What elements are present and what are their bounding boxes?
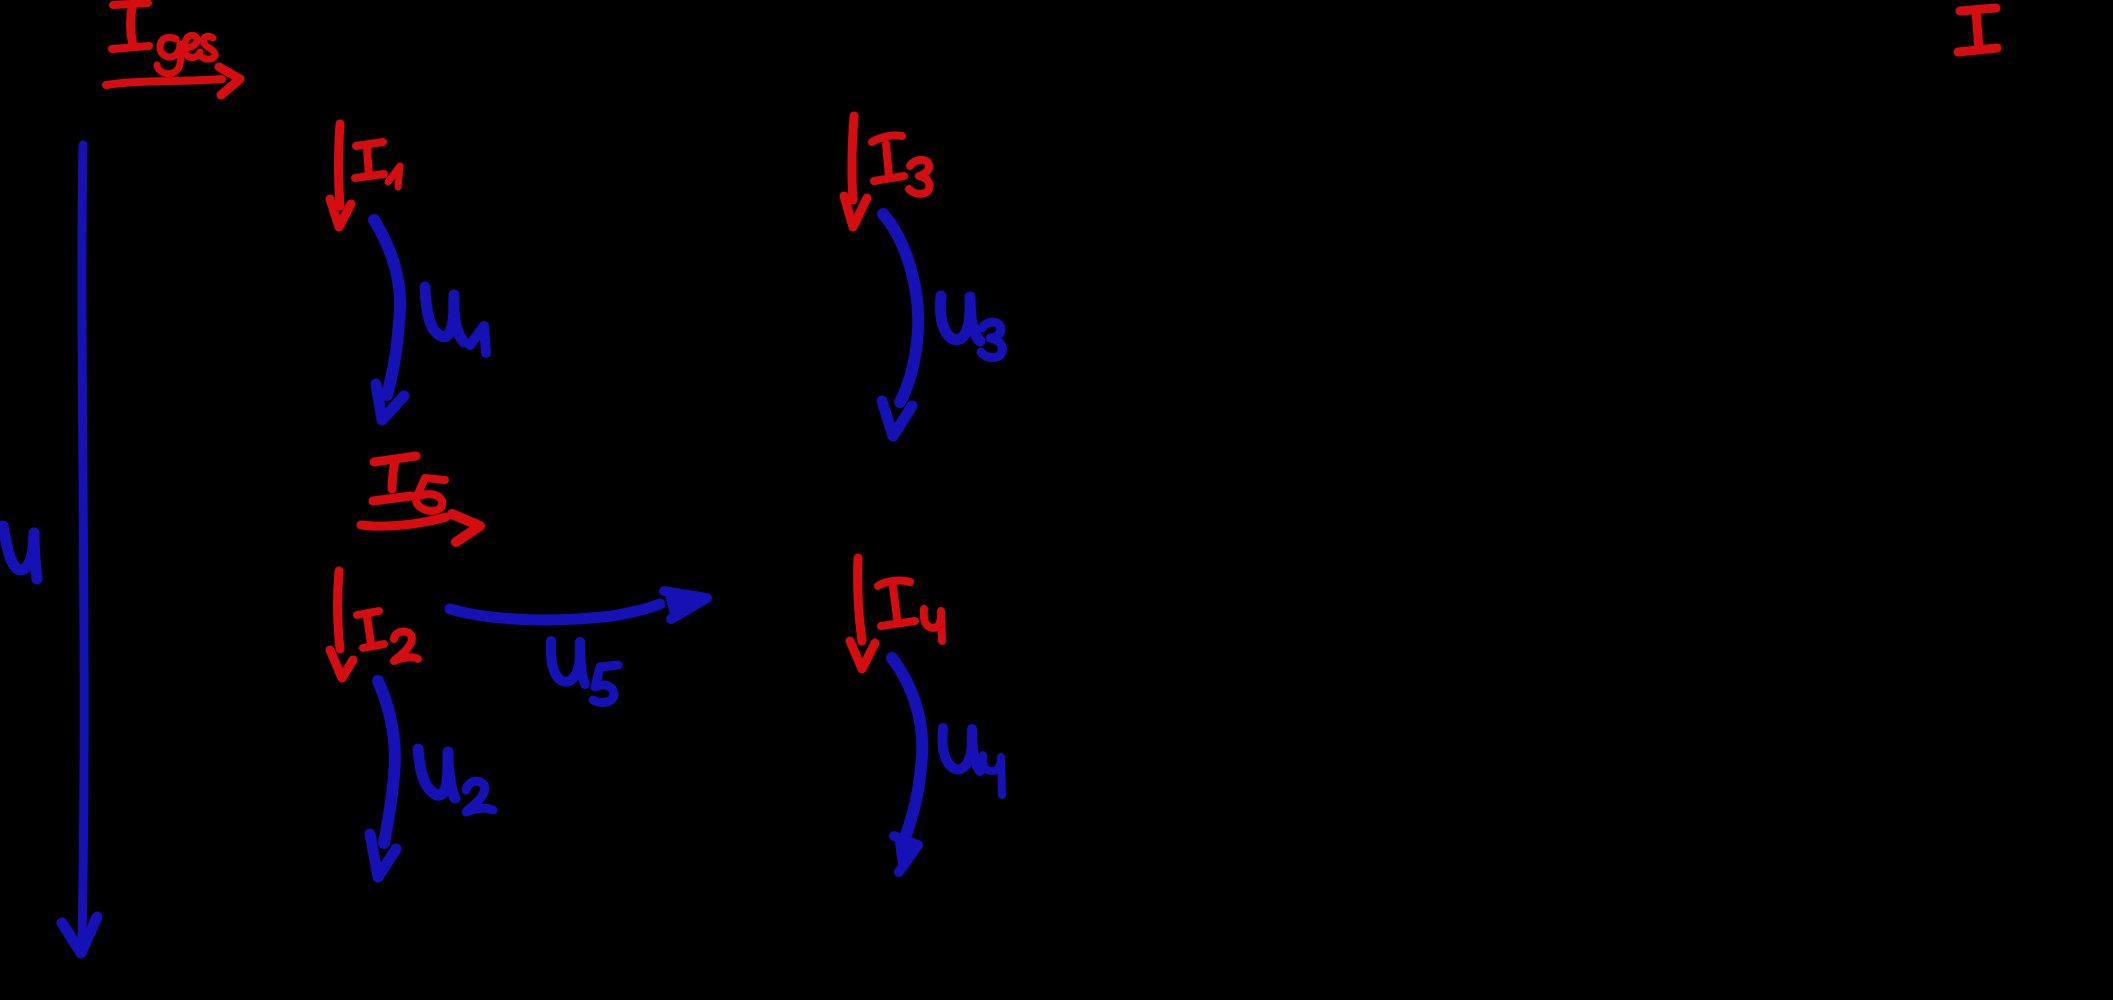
label I5 [373, 456, 445, 511]
arrow U3 curved [883, 214, 918, 402]
wire I_ges arrow shaft [106, 79, 222, 85]
I1 arrowhead [330, 199, 351, 227]
label U2 [418, 749, 493, 812]
U3 arrowhead [882, 401, 912, 436]
label U source voltage [3, 526, 37, 579]
arrow U2 curved [378, 681, 395, 843]
I3 arrowhead [844, 196, 867, 227]
U5 arrowhead [664, 591, 707, 619]
I5 arrowhead [452, 514, 480, 542]
I2 arrowhead [330, 650, 353, 678]
label I_ges : letter I [112, 3, 149, 49]
U4 arrowhead [894, 836, 918, 872]
label u5 [551, 641, 618, 702]
arrow U1 curved [374, 220, 400, 395]
I4 arrowhead [850, 641, 875, 669]
label I3 [872, 135, 929, 194]
U arrowhead [62, 917, 97, 953]
arrow U4 curved [892, 658, 922, 835]
arrow I2 [338, 571, 340, 649]
wire U arrow shaft (left tall arrow) [82, 145, 84, 937]
wire I5 arrow shaft [361, 517, 446, 526]
label I_ges : subscript ges [157, 35, 215, 73]
I_ges arrowhead [219, 67, 240, 95]
label I1 [355, 142, 400, 187]
U2 arrowhead [370, 834, 396, 877]
arrow I3 [852, 116, 854, 200]
arrow I1 [339, 124, 341, 206]
phantom letter I top right [1958, 8, 1997, 52]
label I4 [878, 581, 942, 641]
label U3 [941, 296, 1003, 358]
arrow U5 [450, 604, 660, 620]
U1 arrowhead [376, 384, 404, 420]
label U1 [425, 287, 486, 353]
arrow I4 [858, 558, 862, 641]
label I2 [357, 611, 418, 661]
label U4 [943, 728, 1003, 795]
